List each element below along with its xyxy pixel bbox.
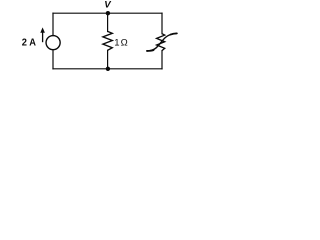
resistor 1 ohm (zigzag) <box>103 31 112 50</box>
variable resistor arrow (S-curve through zigzag) <box>147 33 177 51</box>
svg-text:V: V <box>104 0 112 10</box>
wire: left branch lower segment <box>52 50 54 69</box>
wire: left branch upper segment <box>52 13 54 35</box>
wire: top rail <box>53 12 162 14</box>
wire: right branch upper segment <box>161 13 163 34</box>
value label 1 ohm <box>114 38 128 49</box>
wire: right branch lower segment <box>161 51 163 69</box>
wire: middle branch lower segment <box>107 50 109 69</box>
value label 2 A <box>22 38 37 49</box>
junction dot top (node V) <box>106 11 110 15</box>
current direction arrow <box>40 27 45 42</box>
svg-text:2 A: 2 A <box>22 38 37 49</box>
variable resistor (zigzag) <box>157 34 165 51</box>
svg-text:1: 1 <box>114 38 119 49</box>
node V label <box>104 0 112 10</box>
svg-text:Ω: Ω <box>121 38 128 49</box>
wire: middle branch upper segment <box>107 13 109 31</box>
wire: bottom rail <box>53 68 162 70</box>
current source 2 A (circle) <box>46 36 60 50</box>
junction dot bottom <box>106 67 110 71</box>
